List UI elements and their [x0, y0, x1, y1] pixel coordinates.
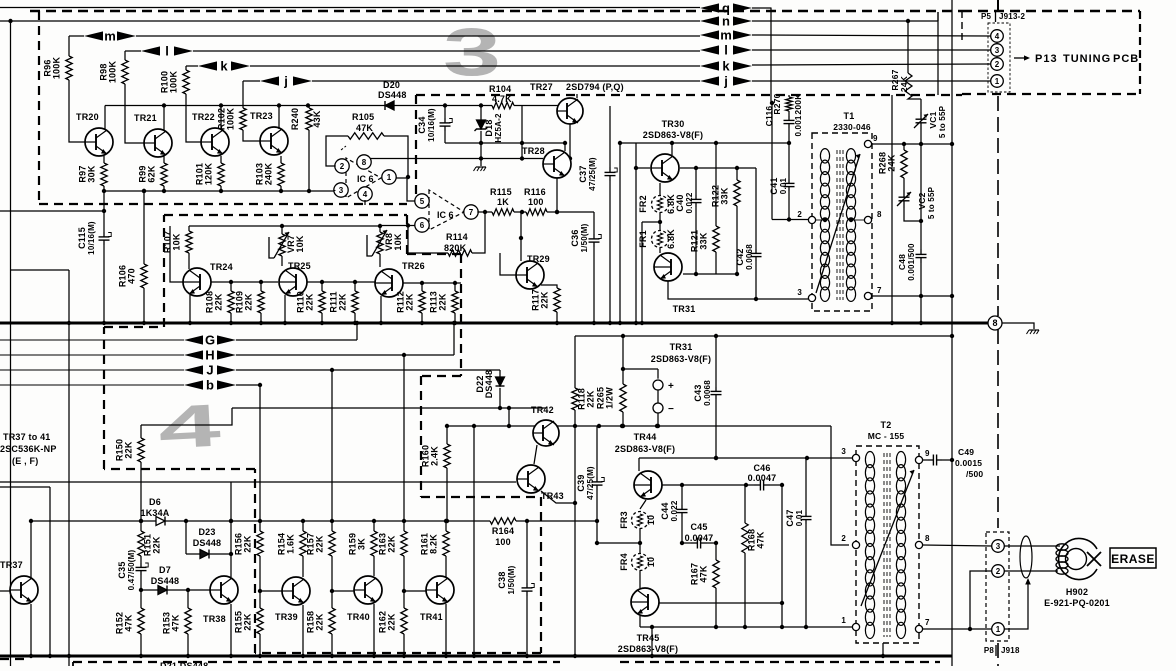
wire TR38 emitter [230, 604, 232, 656]
wire net m [136, 35, 700, 37]
wire bottom bus [0, 655, 952, 658]
resistor VR7 10K [279, 234, 285, 256]
bus tag m left [84, 29, 136, 44]
svg-text:8: 8 [362, 158, 367, 167]
svg-text:TR42: TR42 [531, 405, 554, 415]
junction [919, 219, 923, 223]
wire [556, 312, 558, 323]
wire T1 pin8 internal [851, 219, 864, 221]
capacitor C48 0.001/500 [916, 249, 927, 263]
wire [514, 211, 526, 213]
wire rail [445, 142, 565, 144]
wire TR24 emitter [189, 295, 191, 323]
svg-text:TR28: TR28 [522, 146, 545, 156]
junction [277, 103, 281, 107]
capacitor C115 10/16(M) [99, 232, 112, 245]
transistor TR20 [85, 128, 113, 156]
wire [574, 336, 576, 388]
dashed box PCB3 top edge [30, 10, 962, 13]
wire [379, 226, 381, 232]
wire TR24 base [170, 226, 183, 282]
VR7 10K wiper [269, 232, 289, 258]
wire [715, 143, 717, 226]
junction [219, 189, 223, 193]
resistor R152 47K [138, 608, 144, 634]
transformer T1 outline [812, 133, 872, 311]
diode D18 HZ5A-2 [475, 120, 488, 131]
wire [140, 556, 142, 563]
junction [950, 294, 954, 298]
wire TR44 emitter [640, 500, 646, 509]
wire [230, 482, 232, 554]
op-amp IC6 section B [429, 190, 464, 230]
svg-text:3: 3 [841, 447, 846, 456]
junction [555, 321, 559, 325]
connector pin 3 [991, 44, 1004, 57]
wire [140, 425, 142, 438]
dashed box PCB4 edge [103, 327, 105, 469]
bus tag k center [700, 59, 752, 74]
wire [259, 385, 261, 531]
dash-dot PCB boundary middle [997, 329, 999, 528]
wire [770, 484, 782, 486]
svg-text:/500: /500 [966, 469, 983, 479]
wire [124, 51, 126, 60]
bus tag q [700, 1, 752, 16]
shield arrow [1025, 578, 1031, 585]
wire net b left [0, 384, 184, 386]
wire [683, 273, 737, 275]
wire [259, 591, 261, 608]
wire q net vertical [770, 8, 772, 104]
dashed box bottom-left edge [0, 658, 30, 660]
svg-text:TR31: TR31 [670, 342, 693, 352]
resistor R101 120K [218, 163, 224, 186]
wire [140, 575, 142, 590]
transformer pin [852, 541, 859, 548]
bus tag j center [700, 74, 752, 89]
wire [772, 219, 808, 221]
svg-text:DS448: DS448 [151, 576, 180, 586]
wire [547, 211, 594, 213]
svg-text:C115: C115 [77, 227, 87, 249]
wire stub [882, 643, 884, 656]
junction [525, 654, 529, 658]
svg-text:1/2W: 1/2W [605, 387, 615, 409]
transistor TR42 [533, 420, 559, 446]
svg-text:3: 3 [995, 46, 1000, 55]
wire [280, 186, 282, 191]
wire [788, 128, 790, 143]
junction [881, 654, 885, 658]
dashed box PCB4 edge [460, 254, 462, 376]
svg-text:J918: J918 [1001, 646, 1020, 655]
wire [331, 591, 333, 608]
svg-text:VC2: VC2 [917, 192, 927, 209]
junction [770, 101, 774, 105]
svg-text:TR24: TR24 [210, 262, 233, 272]
wire H drop [403, 355, 405, 521]
resistor R109 22K [258, 291, 264, 313]
wire [923, 545, 992, 546]
wire bottom rail [640, 626, 852, 628]
junction [780, 625, 784, 629]
svg-text:PCB: PCB [1113, 53, 1139, 65]
junction [608, 321, 612, 325]
wire [755, 261, 757, 299]
svg-text:22K: 22K [214, 293, 224, 310]
svg-text:C37: C37 [578, 165, 588, 182]
wire TR30 base [636, 167, 650, 169]
junction [372, 654, 376, 658]
wire net G left [0, 339, 184, 341]
wire TR28 emitter [556, 178, 558, 212]
resistor R118 22K [572, 388, 578, 410]
svg-text:33K: 33K [699, 232, 709, 249]
wire R114 to node [472, 212, 485, 253]
capacitor C45 0.0047 [691, 538, 707, 549]
junction [330, 654, 334, 658]
resistor R268 24K [901, 150, 907, 178]
svg-text:43K: 43K [312, 110, 322, 127]
wire head lead upper [1005, 545, 1061, 547]
svg-text:22K: 22K [338, 293, 348, 310]
svg-text:5 to 55P: 5 to 55P [938, 105, 947, 138]
wire [788, 191, 790, 220]
dashed box PCB4 edge [104, 468, 255, 470]
capacitor C116 0.001 [784, 116, 795, 128]
diode D7 DS448 [158, 586, 167, 595]
junction [573, 424, 577, 428]
transistor TR31 [654, 253, 682, 281]
svg-text:1: 1 [387, 173, 392, 182]
wire TR40 emitter [373, 604, 375, 656]
bus tag b [184, 378, 236, 393]
svg-text:TR22: TR22 [192, 112, 215, 122]
wire TR24 base line [211, 281, 278, 283]
wire TR40 collector [373, 556, 375, 576]
svg-text:7: 7 [877, 286, 882, 295]
wire [715, 399, 717, 458]
transistor TR40 [354, 576, 382, 604]
bus tag k left [198, 59, 250, 74]
wire [220, 186, 222, 191]
wire net k [250, 65, 700, 67]
svg-text:10: 10 [646, 557, 656, 567]
wire T1 pin2 internal [816, 219, 825, 221]
junction [142, 321, 146, 325]
wire [657, 369, 659, 379]
wire [186, 553, 200, 555]
wire [707, 542, 716, 544]
junction [640, 321, 644, 325]
resistor R110 22K [319, 291, 325, 313]
dashed box PCB4 edge [254, 469, 256, 653]
wire [744, 485, 746, 523]
junction [714, 141, 718, 145]
connector pin 2 [991, 58, 1004, 71]
junction [805, 456, 809, 460]
transistor TR25 [279, 268, 307, 296]
diode D20 DS448 [385, 101, 394, 110]
junction [655, 424, 659, 428]
junction [906, 19, 910, 23]
svg-text:3: 3 [339, 186, 344, 195]
resistor R104 4.7K [492, 102, 514, 108]
wire [394, 105, 492, 107]
capacitor C35 0.47/50(M) [136, 563, 149, 575]
junction [283, 321, 287, 325]
wire TR25 emitter [284, 295, 286, 323]
svg-text:22K: 22K [243, 613, 253, 630]
junction [780, 483, 784, 487]
transformer pin [864, 216, 871, 223]
wire [200, 520, 490, 522]
svg-text:120K: 120K [204, 163, 214, 186]
wire [444, 131, 446, 143]
ferrite resistor FR2 6.8K [652, 196, 669, 213]
wire R98 to TR21 base [125, 84, 144, 143]
resistor R151 22K [138, 531, 144, 556]
wire [242, 81, 244, 108]
erase head H902 [1059, 538, 1097, 579]
junction [479, 156, 483, 160]
svg-text:1/50(M): 1/50(M) [507, 565, 516, 594]
resistor R161 8.2K [443, 531, 449, 556]
junction [595, 519, 599, 523]
svg-text:R270: R270 [772, 93, 782, 114]
svg-text:H902: H902 [1066, 587, 1088, 597]
wire [609, 181, 611, 323]
wire [143, 288, 145, 323]
wire C115 feed [0, 210, 104, 212]
junction [320, 321, 324, 325]
svg-text:C41: C41 [769, 177, 779, 194]
svg-text:0.001: 0.001 [794, 115, 803, 136]
wire [140, 462, 142, 521]
junction [597, 424, 601, 428]
variable capacitor VC1 5 to 55P [914, 112, 928, 130]
junction [320, 280, 324, 284]
svg-text:TUNING: TUNING [1063, 53, 1111, 65]
dashed box PCB3 lower edge right part [416, 94, 962, 96]
junction [656, 424, 660, 428]
resistor R153 47K [185, 608, 191, 634]
wire [308, 106, 310, 109]
svg-text:R105: R105 [352, 112, 374, 122]
wire [659, 183, 661, 196]
dashed box PCB4 edge [540, 497, 542, 653]
transformer pin [808, 294, 815, 301]
wire P8-2 link [970, 571, 992, 629]
svg-text:C39: C39 [576, 474, 586, 491]
junction [780, 601, 784, 605]
wire [788, 111, 790, 116]
svg-text:IC 6: IC 6 [437, 210, 454, 220]
wire TR26 emitter [380, 296, 382, 323]
junction [714, 456, 718, 460]
junction [279, 189, 283, 193]
resistor R162 22K [401, 608, 407, 634]
wire pin4 down [364, 200, 366, 205]
connector pin 6 [415, 218, 429, 232]
resistor R115 1K [492, 209, 514, 215]
svg-text:FR4: FR4 [619, 553, 629, 571]
svg-text:2SD794 (P,Q): 2SD794 (P,Q) [566, 82, 624, 92]
wire [31, 520, 156, 522]
svg-text:C44: C44 [660, 502, 670, 519]
wire TR42 emitter to TR43 [534, 445, 537, 464]
transformer pin [808, 216, 815, 223]
dashed box tuning PCB left edge [961, 11, 963, 40]
junction [372, 519, 376, 523]
junction [968, 627, 972, 631]
dashed box PCB3 bottom edge [39, 203, 407, 205]
svg-text:1.6K: 1.6K [286, 534, 296, 554]
svg-text:TR31: TR31 [673, 304, 696, 314]
svg-text:10/16(M): 10/16(M) [427, 108, 436, 142]
svg-text:47K: 47K [756, 531, 766, 548]
wire [373, 521, 375, 531]
junction [379, 321, 383, 325]
junction [714, 456, 718, 460]
wire [903, 144, 905, 150]
wire feed rail [232, 407, 546, 409]
wire [635, 143, 637, 323]
connector pin 1 [991, 75, 1004, 88]
resistor R103 240K [278, 163, 284, 186]
svg-text:P5: P5 [981, 12, 992, 21]
svg-text:0.01: 0.01 [795, 509, 804, 526]
wire net G right [236, 339, 357, 341]
svg-text:47K: 47K [171, 614, 181, 631]
svg-text:0.0015: 0.0015 [955, 458, 982, 468]
junction [472, 424, 476, 428]
junction [787, 217, 791, 221]
wire vertical [521, 106, 523, 159]
capacitor C44 0.022 [677, 505, 688, 517]
wire [167, 589, 210, 591]
junction [650, 625, 654, 629]
svg-text:m: m [104, 29, 116, 44]
bus tag l center [700, 43, 752, 58]
wire TR45 emitter [639, 616, 641, 627]
svg-text:100K: 100K [108, 61, 118, 84]
wire [639, 543, 641, 554]
wire [597, 542, 640, 544]
wire [942, 459, 952, 461]
junction [563, 141, 567, 145]
svg-text:l: l [165, 44, 169, 59]
junction [142, 189, 146, 193]
transformer winding [865, 452, 874, 639]
wire [682, 542, 691, 544]
wire R96 to TR20 base [69, 80, 85, 142]
svg-text:22K: 22K [305, 293, 315, 310]
wire [805, 524, 807, 627]
transformer T2 core [883, 453, 885, 637]
transistor TR41 [426, 576, 454, 604]
wire long vertical rail [951, 0, 953, 666]
transformer pin [852, 623, 859, 630]
wire [788, 143, 790, 179]
wire [736, 206, 738, 274]
svg-text:100: 100 [495, 537, 511, 547]
svg-text:C45: C45 [690, 522, 707, 532]
wire [140, 634, 142, 656]
junction [714, 625, 718, 629]
svg-text:2: 2 [996, 567, 1001, 576]
wire [331, 556, 333, 591]
junction [618, 321, 622, 325]
svg-text:−: − [668, 404, 674, 415]
resistor R164 100 [490, 518, 516, 524]
wire net J right [236, 369, 500, 371]
junction [406, 223, 410, 227]
junction [139, 588, 143, 592]
wire TR29 emitter [541, 285, 557, 288]
junction [258, 654, 262, 658]
transformer T1 core [836, 150, 838, 300]
junction [950, 334, 954, 338]
wire [259, 556, 261, 591]
dashed box PCB4 edge [407, 253, 461, 255]
svg-text:100: 100 [528, 197, 544, 207]
svg-text:22K: 22K [405, 293, 415, 310]
svg-text:C42: C42 [735, 248, 745, 265]
wire [593, 212, 595, 234]
connector pin 5 [415, 194, 429, 208]
connector pin 8 [988, 316, 1002, 330]
junction [162, 103, 166, 107]
resistor R116 100 [526, 209, 547, 215]
wire net q right [752, 7, 771, 9]
wire [185, 521, 187, 554]
junction [406, 175, 410, 179]
junction [307, 189, 311, 193]
junction [229, 654, 233, 658]
wire shield drain [1005, 583, 1029, 629]
svg-text:22K: 22K [315, 613, 325, 630]
svg-text:47K: 47K [356, 123, 373, 133]
cable shield loop [1020, 536, 1032, 578]
junction [595, 541, 599, 545]
junction [67, 321, 71, 325]
junction [139, 519, 143, 523]
svg-text:0.01: 0.01 [779, 177, 788, 194]
svg-text:2SD863-V8(F): 2SD863-V8(F) [615, 444, 675, 454]
ferrite resistor FR1 6.8K [652, 231, 669, 248]
svg-text:R240: R240 [290, 108, 300, 130]
svg-text:TR40: TR40 [347, 612, 370, 622]
junction [29, 654, 33, 658]
resistor R117 22K [554, 288, 560, 312]
wire [230, 282, 232, 291]
junction [555, 210, 559, 214]
svg-text:TR26: TR26 [402, 261, 425, 271]
resistor R265 1/2W [620, 384, 626, 412]
wire [103, 245, 105, 323]
junction [301, 519, 305, 523]
svg-text:0.47/50(M): 0.47/50(M) [127, 550, 136, 591]
wire main supply bus [0, 322, 988, 325]
svg-text:24K: 24K [887, 154, 897, 171]
wire to R114 [408, 226, 448, 254]
svg-text:P8: P8 [984, 646, 995, 655]
junction [754, 297, 758, 301]
bus tag J [184, 363, 236, 378]
resistor R163 22K [401, 531, 407, 556]
